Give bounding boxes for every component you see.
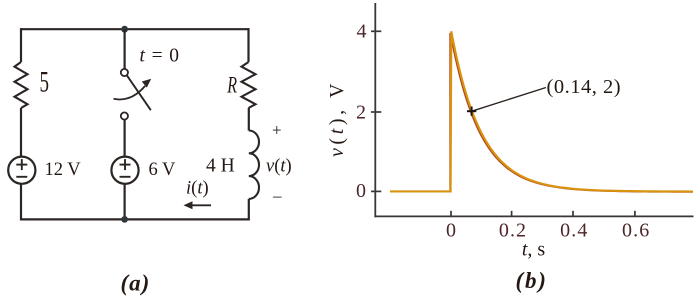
y-axis	[374, 3, 376, 217]
label R	[226, 73, 237, 99]
switch S1 (opens at t=0)	[114, 69, 152, 120]
svg-text:–: –	[272, 186, 282, 205]
wire middle-branch lower	[123, 184, 125, 221]
label i(t)	[186, 179, 209, 199]
svg-text:R: R	[226, 73, 237, 99]
value label 6 V	[149, 160, 177, 180]
y-axis label 4	[357, 21, 367, 43]
axis title t, s	[522, 239, 546, 261]
wire middle-branch middle	[123, 120, 125, 157]
wire left-branch lower	[20, 184, 22, 221]
value label 12 V	[45, 160, 82, 180]
x-axis	[374, 215, 693, 217]
wire top	[20, 28, 250, 30]
svg-text:(a): (a)	[121, 271, 151, 296]
resistor R	[242, 62, 256, 108]
x tick 0	[450, 211, 452, 217]
inductor L1 4H	[249, 131, 259, 199]
svg-text:0.4: 0.4	[560, 220, 588, 242]
svg-text:t, s: t, s	[522, 239, 546, 261]
wire middle-branch upper	[123, 29, 125, 69]
label t = 0	[140, 46, 180, 67]
node A (top junction dot)	[121, 26, 128, 33]
x-axis label 0.2	[499, 220, 527, 242]
node B (bottom junction dot)	[121, 216, 128, 223]
caption (b)	[516, 268, 548, 293]
annotation point marker +	[467, 107, 476, 116]
voltage source V2 6V	[111, 157, 138, 184]
curve v(t) red underlay	[450, 33, 693, 192]
x-axis label 0.6	[622, 220, 650, 242]
label + (v(t) polarity)	[272, 121, 282, 140]
label - (v(t) polarity)	[272, 186, 282, 205]
svg-text:0: 0	[356, 180, 366, 202]
y-axis label 2	[356, 102, 366, 124]
x tick 0.2	[511, 211, 513, 217]
y tick 4	[371, 30, 381, 32]
svg-text:0: 0	[446, 220, 456, 242]
svg-text:(b): (b)	[516, 268, 548, 293]
arrow i(t) current direction	[184, 201, 212, 209]
wire right-branch upper	[247, 28, 249, 62]
svg-text:+: +	[272, 121, 282, 140]
x tick 0.4	[572, 211, 574, 217]
svg-text:(0.14, 2): (0.14, 2)	[547, 76, 622, 98]
svg-text:v(t): v(t)	[266, 157, 292, 177]
annotation leader line	[472, 88, 546, 112]
y tick 0	[371, 190, 381, 192]
annotation label (0.14, 2)	[547, 76, 622, 98]
wire left-branch upper	[20, 28, 22, 62]
svg-text:4 H: 4 H	[206, 156, 235, 177]
x-axis label 0	[446, 220, 456, 242]
axis title v(t), V	[326, 80, 348, 157]
svg-text:v(t), V: v(t), V	[326, 80, 348, 157]
x tick 0.6	[634, 211, 636, 217]
wire right-branch middle	[248, 108, 250, 131]
svg-text:12 V: 12 V	[45, 160, 82, 180]
svg-text:6 V: 6 V	[149, 160, 177, 180]
svg-text:4: 4	[357, 21, 367, 43]
svg-text:5: 5	[40, 67, 50, 99]
value label 4 H	[206, 156, 235, 177]
wire right-branch lower	[248, 199, 250, 221]
wire bottom	[20, 218, 250, 220]
curve v(t) orange	[390, 31, 693, 191]
voltage source V1 12V	[8, 157, 35, 184]
y tick 2	[371, 111, 381, 113]
svg-text:i(t): i(t)	[186, 179, 209, 199]
svg-text:0.6: 0.6	[622, 220, 650, 242]
x-axis label 0.4	[560, 220, 588, 242]
wire left-branch middle	[20, 108, 22, 157]
resistor 5	[15, 62, 28, 108]
value label 5	[40, 67, 50, 99]
y-axis label 0	[356, 180, 366, 202]
svg-text:t = 0: t = 0	[140, 46, 180, 67]
label v(t)	[266, 157, 292, 177]
caption (a)	[121, 271, 151, 296]
svg-text:2: 2	[356, 102, 366, 124]
